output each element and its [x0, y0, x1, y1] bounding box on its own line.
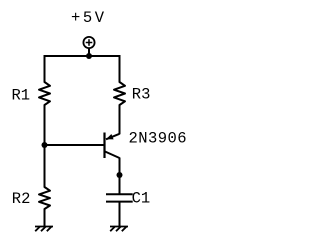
svg-text:R3: R3: [132, 86, 151, 104]
wire left vertical middle: [44, 105, 46, 187]
capacitor C1: [106, 194, 133, 201]
resistor R2: [39, 187, 50, 209]
junction dot collector node: [117, 172, 123, 178]
node base junction dot: [42, 142, 48, 148]
svg-text:R1: R1: [12, 87, 31, 105]
resistor R1: [39, 82, 50, 105]
ground symbol left: [35, 227, 53, 232]
transistor Q1 2N3906: [105, 133, 120, 159]
wire base: [45, 144, 105, 146]
wire capacitor to ground: [119, 202, 121, 227]
ground symbol right: [110, 227, 128, 232]
wire emitter lead: [119, 105, 121, 134]
svg-text:+5V: +5V: [71, 9, 105, 27]
wire top rail: [44, 55, 121, 57]
svg-text:R2: R2: [12, 190, 31, 208]
power supply symbol: [83, 37, 94, 48]
wire power stub: [88, 48, 90, 56]
wire right vertical upper: [119, 55, 121, 83]
wire left vertical upper: [44, 55, 46, 83]
svg-text:2N3906: 2N3906: [129, 129, 187, 147]
resistor R3: [114, 82, 125, 105]
wire collector lead: [119, 158, 121, 196]
wire left vertical lower: [44, 209, 46, 227]
svg-text:C1: C1: [132, 190, 151, 208]
junction dot at power rail: [86, 53, 92, 59]
